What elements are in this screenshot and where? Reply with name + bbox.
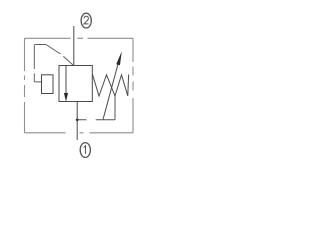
junction dot <box>76 118 79 121</box>
spring chamber drain line <box>77 96 115 120</box>
flow arrow inside envelope <box>65 66 67 95</box>
port 2 label <box>81 13 91 28</box>
component boundary (dashed enclosure) <box>25 38 134 133</box>
adjustment arrow <box>103 63 118 120</box>
spring <box>93 75 129 97</box>
port 1 label <box>80 143 90 158</box>
port 1 line <box>76 102 78 141</box>
pilot piston box <box>42 75 54 94</box>
pilot line (dashed) from port 2 node to pilot piston <box>34 45 73 82</box>
valve envelope square <box>59 66 92 102</box>
port 2 line <box>73 26 75 66</box>
